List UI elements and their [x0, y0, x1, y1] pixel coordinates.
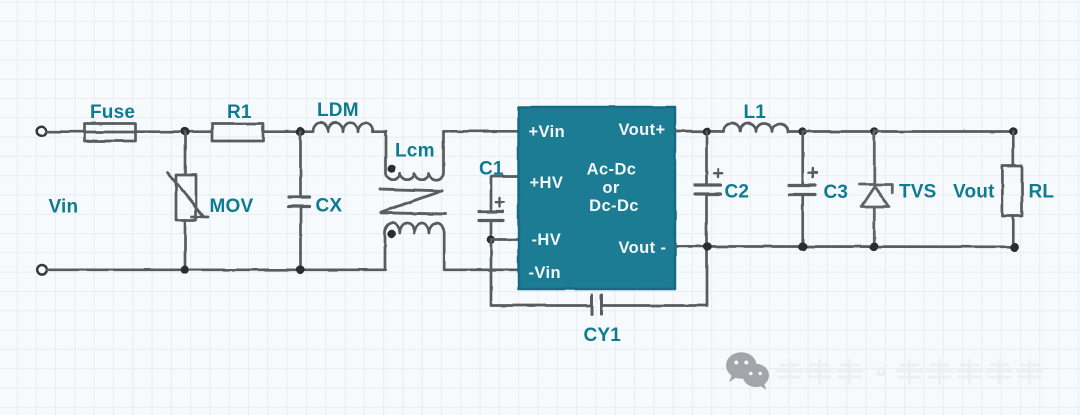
pin label -Vin — [529, 264, 561, 282]
label Ac-Dc or Dc-Dc — [587, 161, 639, 216]
svg-text:TVS: TVS — [899, 182, 937, 203]
node -HV junction — [487, 235, 496, 244]
svg-text:+HV: +HV — [530, 174, 564, 192]
watermark wechat icon — [726, 352, 769, 390]
node bottom MOV junction — [181, 266, 190, 275]
label MOV — [210, 196, 254, 217]
label L1 — [744, 102, 767, 123]
wire terminal to fuse — [47, 130, 86, 133]
terminal input bottom — [37, 265, 47, 275]
svg-text:MOV: MOV — [210, 196, 254, 217]
node TVS top junction — [870, 127, 879, 136]
label Fuse — [90, 102, 135, 123]
label Vin — [49, 197, 79, 218]
svg-text:Ac-Dc: Ac-Dc — [587, 161, 637, 179]
node C3 bottom junction — [799, 242, 808, 251]
wire C1 top to module +HV — [491, 177, 519, 211]
capacitor CY1 — [592, 295, 602, 314]
svg-text:CY1: CY1 — [584, 325, 622, 346]
svg-text:L1: L1 — [744, 102, 767, 123]
label C2 — [725, 182, 750, 203]
svg-text:Fuse: Fuse — [90, 102, 135, 123]
svg-text:LDM: LDM — [317, 100, 359, 121]
svg-text:RL: RL — [1029, 182, 1055, 203]
label RL — [1029, 182, 1055, 203]
wire L1 to node C3 — [788, 130, 803, 133]
transformer LCM secondary winding — [385, 223, 444, 270]
pin label +Vin — [529, 123, 566, 141]
node C3 top junction — [798, 127, 807, 136]
capacitor C3 — [789, 132, 817, 247]
inductor L1 — [724, 124, 788, 132]
node RL bottom junction — [1010, 243, 1019, 252]
transformer LCM core — [380, 189, 446, 214]
varistor MOV — [168, 132, 208, 270]
wire R1 to LDM — [263, 130, 313, 133]
label C3 — [824, 182, 849, 203]
label Vout — [953, 182, 995, 203]
node B junction — [296, 127, 305, 136]
svg-text:Vout+: Vout+ — [619, 121, 666, 139]
node A junction — [181, 127, 190, 136]
node RL top junction — [1009, 127, 1018, 136]
node Vout+ junction — [702, 127, 711, 136]
wire CY1 left leg — [491, 240, 591, 306]
watermark text — [777, 360, 1042, 383]
pin label -HV — [532, 231, 562, 249]
label C1 — [479, 159, 504, 180]
label CX — [316, 196, 343, 217]
svg-text:-HV: -HV — [532, 231, 562, 249]
wire Vout- rail — [675, 245, 1015, 248]
svg-text:CX: CX — [316, 196, 343, 217]
label Lcm — [395, 141, 435, 162]
wire -HV node to module — [491, 238, 519, 241]
resistor RL — [1002, 132, 1022, 248]
node Vout- junction — [703, 242, 712, 251]
diode TVS — [860, 132, 893, 247]
svg-text:Vout -: Vout - — [619, 239, 667, 257]
node bottom CX junction — [296, 266, 305, 275]
pin label Vout- — [619, 239, 667, 257]
wire LDM to LCM — [373, 130, 386, 133]
label TVS — [899, 182, 937, 203]
wire fuse to R1 — [136, 130, 213, 133]
label R1 — [227, 102, 252, 123]
label CY1 — [584, 325, 622, 346]
fuse Fuse — [85, 124, 136, 142]
terminal input top — [37, 127, 47, 137]
svg-text:Lcm: Lcm — [395, 141, 435, 162]
capacitor CX — [289, 132, 310, 270]
wire module Vout+ to L1 — [675, 130, 724, 133]
svg-text:Vout: Vout — [953, 182, 995, 203]
capacitor C2 — [695, 132, 722, 247]
svg-text:Vin: Vin — [49, 197, 79, 218]
pin label Vout+ — [619, 121, 666, 139]
transformer LCM primary winding — [386, 132, 444, 180]
wire LCM to module -Vin — [444, 268, 519, 271]
node TVS bottom junction — [870, 242, 879, 251]
wire node C3 to node TVS — [803, 130, 875, 133]
svg-text:R1: R1 — [227, 102, 252, 123]
wire node TVS to RL — [874, 130, 1013, 133]
wire LCM to module +Vin — [444, 130, 520, 133]
resistor R1 — [212, 124, 263, 142]
svg-text:C1: C1 — [479, 159, 504, 180]
svg-text:Dc-Dc: Dc-Dc — [589, 197, 639, 215]
wire bottom rail input to LCM — [47, 268, 385, 271]
pin label +HV — [530, 174, 564, 192]
svg-text:C2: C2 — [725, 182, 750, 203]
inductor LDM — [313, 123, 373, 132]
svg-text:+Vin: +Vin — [529, 123, 566, 141]
svg-text:-Vin: -Vin — [529, 264, 561, 282]
wire CY1 right leg — [602, 247, 707, 306]
svg-text:or: or — [602, 179, 619, 197]
label LDM — [317, 100, 359, 121]
svg-text:C3: C3 — [824, 182, 849, 203]
converter module U1 — [519, 107, 676, 289]
capacitor C1 — [479, 198, 504, 240]
